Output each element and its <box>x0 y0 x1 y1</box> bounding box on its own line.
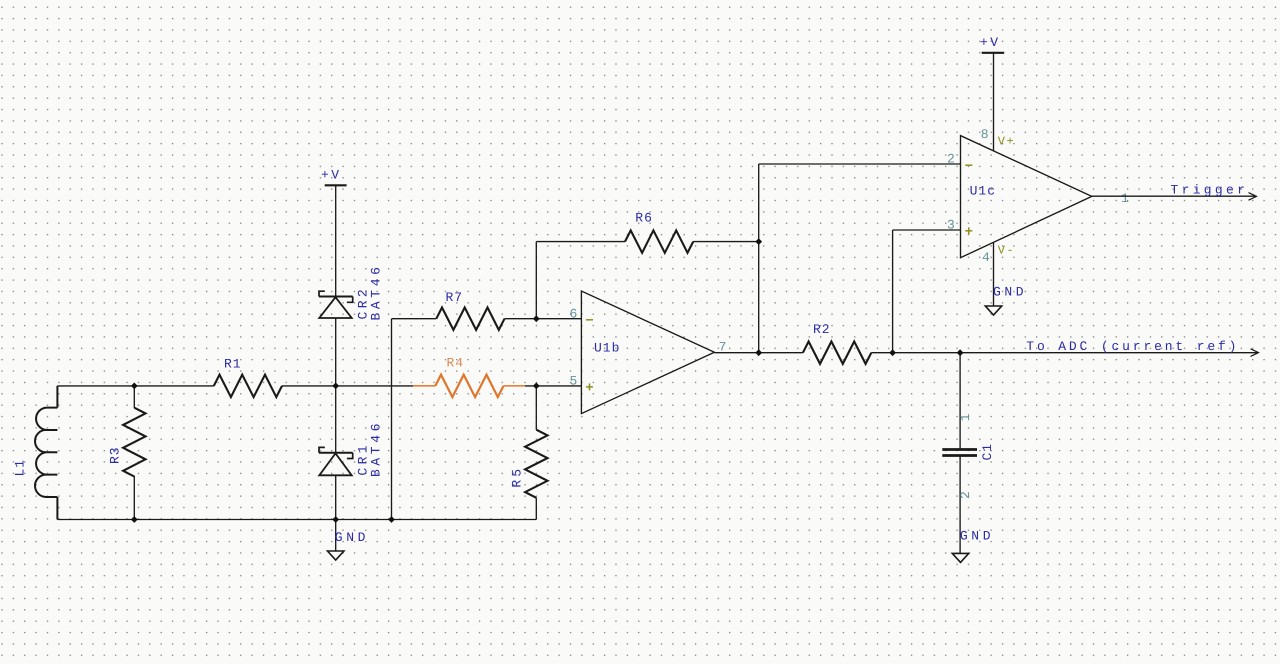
ground (below C1) <box>952 553 968 562</box>
wire +V to U1c V+ pin <box>993 53 995 151</box>
arrow To ADC <box>1251 349 1259 357</box>
wire U1b output to R2 <box>714 352 803 354</box>
wire GND stub below rail <box>335 520 337 552</box>
op-amp U1b <box>581 291 714 414</box>
node output fb <box>755 349 762 356</box>
svg-text:R5: R5 <box>510 466 525 488</box>
svg-text:4: 4 <box>982 250 991 265</box>
wire R1 to CR junction to R4 <box>282 385 413 387</box>
svg-text:+V: +V <box>321 167 342 182</box>
node pin5 <box>533 383 540 390</box>
wire main rail left: L1 top to R1 <box>57 385 213 387</box>
svg-text:GND: GND <box>335 530 369 545</box>
node R7 rail <box>388 516 395 523</box>
node CR1 rail <box>332 516 339 523</box>
resistor R1 <box>214 375 282 397</box>
ground (below CR1) <box>328 551 344 560</box>
wire vertical R7-left to bottom rail <box>391 319 393 520</box>
svg-text:R7: R7 <box>446 290 464 305</box>
wire pin6 junction to U1b pin 6 <box>536 318 581 320</box>
wire main rail to CR1 <box>335 386 337 453</box>
svg-text:C1: C1 <box>980 443 995 461</box>
wire To ADC output <box>960 352 1257 354</box>
wire vertical pin2 riser <box>758 164 760 242</box>
svg-text:1: 1 <box>958 412 973 421</box>
minus mark U1c <box>965 164 972 166</box>
svg-text:3: 3 <box>947 217 956 232</box>
wire CR1 anode to bottom rail <box>335 475 337 519</box>
node R2 right <box>889 349 896 356</box>
arrow Trigger <box>1249 193 1257 201</box>
power +V (over U1c) <box>980 35 1004 53</box>
node pin6 <box>533 315 540 322</box>
op-amp U1c <box>961 136 1092 258</box>
wire CR2 anode to main rail <box>335 318 337 386</box>
svg-text:BAT46: BAT46 <box>368 420 383 477</box>
svg-text:R3: R3 <box>107 446 122 464</box>
plus mark U1b <box>586 386 593 388</box>
svg-text:U1b: U1b <box>594 341 620 356</box>
minus mark U1b <box>586 319 593 321</box>
resistor R5 <box>525 386 547 520</box>
resistor R4 (orange) <box>413 375 525 397</box>
inductor L1 <box>35 386 57 520</box>
wire R7 to pin6 junction <box>505 318 537 320</box>
node ADC/C1 <box>957 349 964 356</box>
wire R6 left lead <box>536 241 625 243</box>
wire R7 left lead <box>392 318 437 320</box>
node R6 right <box>755 238 762 245</box>
svg-text:R6: R6 <box>635 211 653 226</box>
resistor R2 <box>803 342 871 364</box>
wire +V to CR2 <box>335 185 337 296</box>
wire U1c pin 2 <box>759 163 961 165</box>
svg-text:L1: L1 <box>12 459 27 477</box>
svg-text:2: 2 <box>958 490 973 499</box>
svg-text:BAT46: BAT46 <box>368 263 383 320</box>
resistor R6 <box>625 230 693 252</box>
wire R6 right lead <box>693 241 759 243</box>
svg-text:1: 1 <box>1121 191 1130 206</box>
svg-text:2: 2 <box>947 152 956 167</box>
power +V (over CR2) <box>321 167 347 185</box>
capacitor C1 <box>942 353 977 554</box>
svg-text:R4: R4 <box>447 356 465 371</box>
svg-text:Trigger: Trigger <box>1171 183 1249 198</box>
svg-text:8: 8 <box>981 127 990 142</box>
svg-text:To ADC (current ref): To ADC (current ref) <box>1026 339 1239 354</box>
ground (below U1c) <box>985 306 1001 315</box>
wire R2 junction to ADC junction <box>893 352 961 354</box>
node R3 top <box>131 383 138 390</box>
wire vertical pin6 junction up to R6 <box>535 242 537 319</box>
svg-text:V+: V+ <box>998 135 1015 149</box>
svg-text:GND: GND <box>993 284 1027 299</box>
wire R4 to pin5 junction to U1b pin 5 <box>525 385 581 387</box>
svg-text:6: 6 <box>570 306 579 321</box>
svg-text:+V: +V <box>980 35 1001 50</box>
svg-text:U1c: U1c <box>970 184 996 199</box>
node R3 bottom <box>131 516 138 523</box>
wire vertical pin3 riser <box>892 230 894 353</box>
diode CR2 (BAT46 schottky) <box>319 291 353 318</box>
plus mark U1c <box>965 230 972 232</box>
node CR main <box>332 383 339 390</box>
wire U1c V- pin to ground <box>993 242 995 306</box>
resistor R7 <box>436 308 504 330</box>
wire Trigger output <box>1092 195 1255 197</box>
svg-text:R2: R2 <box>813 322 831 337</box>
wire R2 right lead <box>871 352 892 354</box>
svg-text:5: 5 <box>570 373 579 388</box>
wire vertical R6 junction down to output <box>758 242 760 353</box>
svg-text:GND: GND <box>960 529 994 544</box>
svg-text:R1: R1 <box>224 357 242 372</box>
wire to U1c pin 3 <box>893 229 961 231</box>
diode CR1 (BAT46 schottky) <box>319 447 353 475</box>
resistor R3 <box>123 386 145 520</box>
svg-text:V-: V- <box>998 243 1015 257</box>
wire bottom rail <box>57 519 536 521</box>
